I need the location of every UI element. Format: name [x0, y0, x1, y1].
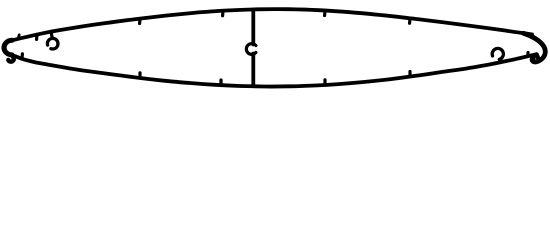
center ring (open right, threaded on thwart): [246, 44, 256, 55]
left tip fork nub on top edge: [17, 35, 20, 37]
top tick 5: [408, 18, 412, 23]
left tip droop curl under bow: [8, 55, 13, 61]
bottom tick 5: [408, 72, 411, 77]
center thwart line upper segment: [251, 10, 255, 45]
right tip cap branch (curls from top edge around stern, ends tucked under): [524, 33, 546, 62]
center thwart line lower segment: [251, 54, 255, 87]
bottom tick 4: [323, 80, 326, 85]
bottom tick 6: [526, 53, 529, 57]
bottom tick 1: [20, 54, 24, 59]
left hook ring (open lower-left): [47, 38, 58, 49]
top tick 4: [323, 11, 327, 16]
top tick 1: [35, 34, 39, 39]
right stern neck fill: [537, 54, 539, 59]
hull outline (lens shape: top edge, left rounded tip, bottom edge): [3, 9, 536, 86]
top tick 3: [221, 11, 225, 16]
bottom tick 2: [138, 73, 141, 78]
bottom tick 3: [219, 80, 222, 85]
left hook stem: [51, 31, 52, 38]
right hook ring (open bottom-left, resting on gunwale): [492, 48, 503, 59]
left tip cap thick overlay: [4, 40, 12, 55]
top tick 2: [138, 19, 142, 24]
